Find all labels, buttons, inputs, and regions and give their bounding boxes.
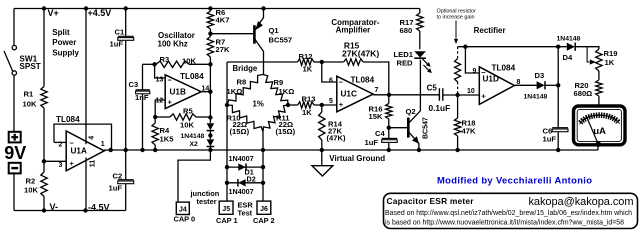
node D4 feedback junction <box>556 45 560 49</box>
svg-text:CAP 0: CAP 0 <box>174 215 196 224</box>
label Split Power Supply <box>52 28 79 57</box>
wire rectifier feedback <box>458 46 567 48</box>
svg-text:680Ω: 680Ω <box>574 89 593 98</box>
node top rail junction x44 <box>42 6 46 10</box>
resistor R9 <box>263 75 288 106</box>
svg-text:R19: R19 <box>604 49 618 58</box>
svg-text:1%: 1% <box>253 100 264 109</box>
svg-text:D4: D4 <box>563 53 573 62</box>
node U1A output junction <box>109 148 113 152</box>
op-amp U1D <box>479 67 514 105</box>
wire bridge bottom down <box>262 132 264 202</box>
svg-text:4: 4 <box>89 136 96 140</box>
wire rail corner to R17 <box>419 9 421 14</box>
node Q2 base junction <box>387 126 391 130</box>
annotation arrow optional resistor <box>454 21 458 45</box>
ground symbol virtual ground <box>312 150 333 176</box>
wire bottom V- rail <box>14 210 126 212</box>
svg-text:R5: R5 <box>183 107 193 116</box>
wire R3 line left <box>143 63 157 65</box>
node R4 R5 junction <box>153 115 157 119</box>
svg-text:R1: R1 <box>24 90 34 99</box>
svg-text:+4.5V: +4.5V <box>88 8 112 18</box>
svg-text:J5: J5 <box>222 206 230 213</box>
svg-text:−: − <box>70 139 75 148</box>
svg-text:Split: Split <box>52 28 70 37</box>
svg-text:R9: R9 <box>274 78 284 87</box>
svg-text:(15Ω): (15Ω) <box>230 127 250 136</box>
node C1 C2 rail junction <box>124 148 128 152</box>
svg-text:J6: J6 <box>260 206 268 213</box>
svg-text:9V: 9V <box>4 143 26 163</box>
diode D3 <box>537 81 559 89</box>
svg-text:47K: 47K <box>462 126 476 135</box>
svg-text:Test: Test <box>238 209 253 218</box>
svg-text:1uF: 1uF <box>365 138 379 147</box>
svg-text:TL084: TL084 <box>180 72 204 81</box>
wire D3 node vertical <box>557 47 559 86</box>
node bridge right <box>286 103 290 107</box>
svg-text:1K: 1K <box>605 58 615 67</box>
node D3 output junction <box>556 83 560 87</box>
diode D1 1N4007 <box>227 163 263 170</box>
svg-text:TL084: TL084 <box>351 76 375 85</box>
wire pin6 down <box>322 62 337 82</box>
svg-text:6: 6 <box>329 78 333 85</box>
node R3 output junction <box>208 62 212 66</box>
svg-text:(47K): (47K) <box>327 133 346 142</box>
node bottom rail junction x85.5 <box>83 208 87 212</box>
wire U1B pin12 <box>155 100 165 117</box>
svg-text:1uF: 1uF <box>109 184 123 193</box>
node C6 rail junction <box>556 148 560 152</box>
svg-text:1N4007: 1N4007 <box>229 154 254 163</box>
svg-text:+: + <box>481 92 486 101</box>
svg-text:+: + <box>168 98 173 107</box>
svg-text:C5: C5 <box>427 84 438 93</box>
svg-text:10K: 10K <box>182 57 196 66</box>
svg-text:Rectifier: Rectifier <box>474 26 506 35</box>
svg-text:tester: tester <box>197 197 217 206</box>
node diode rail junction <box>208 148 212 152</box>
resistor R17 <box>417 13 423 31</box>
resistor R6 <box>207 9 213 34</box>
resistor R5 <box>170 114 196 120</box>
svg-text:−: − <box>168 76 173 85</box>
optional resistor dashed <box>455 47 461 95</box>
svg-text:C1: C1 <box>115 28 125 37</box>
svg-text:1KΩ: 1KΩ <box>279 87 295 96</box>
wire U1B output <box>201 91 210 93</box>
svg-text:R2: R2 <box>26 176 36 185</box>
wire divider bottom <box>43 197 45 211</box>
svg-text:11: 11 <box>90 160 97 168</box>
node R18 rail junction <box>455 148 459 152</box>
wire R12 right <box>314 61 322 63</box>
resistor R1 <box>41 87 47 109</box>
meter microammeter <box>574 106 626 147</box>
node C3 rail junction <box>140 148 144 152</box>
wire switch to battery <box>13 75 15 132</box>
transistor Q1 BC557 <box>254 9 263 75</box>
node Q1 base junction <box>208 32 212 36</box>
capacitor C3 <box>136 64 150 150</box>
wire R5 right <box>196 116 210 118</box>
svg-text:Modified by Vecchiarelli Anton: Modified by Vecchiarelli Antonio <box>437 175 592 186</box>
svg-text:C4: C4 <box>375 129 385 138</box>
potentiometer R19 <box>587 47 602 71</box>
svg-text:1N4148: 1N4148 <box>181 133 205 140</box>
node pin6 junction <box>320 60 324 64</box>
wire R17 to LED <box>419 31 421 49</box>
resistor R12 <box>298 59 315 65</box>
svg-text:C3: C3 <box>129 80 139 89</box>
resistor R10 <box>227 105 263 132</box>
svg-text:TL084: TL084 <box>56 115 80 124</box>
wire R3 line right <box>189 63 210 65</box>
node top rail junction x210.4 <box>208 6 212 10</box>
svg-text:R12: R12 <box>299 52 313 61</box>
svg-text:0.1uF: 0.1uF <box>429 103 451 113</box>
wire oscillator output vertical <box>209 64 211 117</box>
svg-text:CAP 1: CAP 1 <box>216 216 238 225</box>
wire C2 bottom <box>125 184 127 211</box>
svg-text:D3: D3 <box>535 71 545 80</box>
node U1B output junction <box>208 90 212 94</box>
node R3 pin13 junction <box>152 62 156 66</box>
wire pin13 stub <box>155 64 166 78</box>
node R14 rail junction <box>320 148 324 152</box>
connector J4 <box>176 202 189 214</box>
svg-text:10K: 10K <box>24 185 38 194</box>
node D2 left <box>225 181 229 185</box>
svg-text:−: − <box>481 68 486 77</box>
node D1 left <box>225 165 229 169</box>
capacitor C6 <box>552 85 568 150</box>
svg-text:SPST: SPST <box>19 62 40 71</box>
svg-text:Bridge: Bridge <box>233 64 258 73</box>
info box <box>384 193 638 228</box>
wire midpoint to pin3 <box>44 160 66 162</box>
svg-text:C2: C2 <box>113 172 123 181</box>
svg-text:J4: J4 <box>179 206 187 213</box>
node C4 rail junction <box>387 148 391 152</box>
resistor R15 <box>344 59 364 65</box>
node bridge left <box>225 103 229 107</box>
svg-text:1K5: 1K5 <box>160 135 175 144</box>
wire R15 left <box>322 61 344 63</box>
resistor R14 <box>319 105 325 150</box>
svg-text:12: 12 <box>156 98 164 105</box>
wire top V+ rail <box>14 8 420 10</box>
op-amp U1A <box>66 131 104 171</box>
svg-text:13: 13 <box>156 76 164 83</box>
resistor R16 <box>386 95 392 128</box>
svg-text:Amplifier: Amplifier <box>336 26 371 35</box>
svg-text:−: − <box>339 77 344 86</box>
svg-text:Capacitor ESR meter: Capacitor ESR meter <box>387 196 475 206</box>
resistor R4 <box>152 117 158 150</box>
node D2 right <box>261 181 265 185</box>
svg-text:TL084: TL084 <box>492 64 516 73</box>
capacitor C5 <box>439 88 442 101</box>
svg-text:(15Ω): (15Ω) <box>276 127 296 136</box>
wire R5 left <box>155 116 170 118</box>
battery 9V negative terminal <box>9 163 21 174</box>
capacitor C4 <box>382 128 398 150</box>
wire diode mid <box>209 131 211 140</box>
wire divider middle <box>43 108 45 172</box>
transistor Q2 BC547 <box>408 60 420 150</box>
wire divider top <box>43 9 45 87</box>
svg-text:1nF: 1nF <box>135 93 149 102</box>
svg-text:100 Khz: 100 Khz <box>158 40 188 49</box>
wire bridge left node up <box>226 62 228 105</box>
diode D4 <box>567 43 599 51</box>
resistor R18 <box>454 95 460 150</box>
svg-text:4K7: 4K7 <box>216 16 230 25</box>
resistor R13 <box>298 102 314 108</box>
svg-text:1KΩ: 1KΩ <box>227 87 243 96</box>
svg-text:V+: V+ <box>48 8 59 18</box>
resistor R11 <box>263 105 288 132</box>
svg-text:1N4148: 1N4148 <box>557 36 581 43</box>
wire virtual ground rail <box>104 149 598 151</box>
svg-text:uA: uA <box>593 126 606 137</box>
svg-text:1K: 1K <box>302 108 312 117</box>
wire pin9 <box>465 47 479 73</box>
svg-text:Optional resistor: Optional resistor <box>437 9 476 15</box>
svg-text:Power: Power <box>52 38 76 47</box>
wire C5 to pin10 <box>443 94 480 96</box>
node diode pair midpoint <box>208 133 212 137</box>
svg-text:U1C: U1C <box>341 90 357 99</box>
node pin5 junction <box>320 103 324 107</box>
svg-text:7: 7 <box>375 87 379 94</box>
svg-text:D2: D2 <box>247 175 256 184</box>
node R5 diode junction <box>208 115 212 119</box>
svg-text:10: 10 <box>467 88 475 95</box>
node top rail junction x86 <box>84 6 88 10</box>
wire bridge left node down <box>226 105 228 201</box>
resistor R3 <box>156 61 189 67</box>
node R4 rail junction <box>153 148 157 152</box>
wire C2 top <box>125 150 127 180</box>
svg-text:BC547: BC547 <box>423 117 430 139</box>
node top rail junction x263.5 <box>261 6 265 10</box>
wire R12 line <box>227 61 298 63</box>
svg-text:R8: R8 <box>237 78 247 87</box>
svg-text:9: 9 <box>473 68 477 75</box>
wire R13 left <box>288 104 298 106</box>
diode D2 1N4007 <box>227 179 263 186</box>
svg-text:R13: R13 <box>302 95 316 104</box>
op-amp U1B <box>165 75 201 109</box>
wire U1D output <box>514 84 536 86</box>
node bottom rail junction x44 <box>42 208 46 212</box>
wire U1A pin2 <box>54 141 66 143</box>
svg-text:1uF: 1uF <box>110 40 124 49</box>
svg-text:Q2: Q2 <box>406 107 416 116</box>
svg-text:Q1: Q1 <box>269 26 280 35</box>
connector J6 <box>257 201 271 214</box>
wire opamp supply line pin11 <box>85 158 87 211</box>
svg-text:1uF: 1uF <box>543 135 557 144</box>
capacitor C2 <box>118 180 134 184</box>
switch SW1 SPST <box>4 45 17 75</box>
capacitor C1 <box>118 36 134 40</box>
diode D5 1N4148 top <box>207 118 215 131</box>
svg-text:5: 5 <box>329 98 333 105</box>
node bridge bottom rail junction <box>261 148 265 152</box>
node Q2 emitter rail junction <box>417 148 421 152</box>
wire battery to bottom rail <box>13 173 15 210</box>
svg-text:+: + <box>339 100 344 109</box>
svg-text:X2: X2 <box>190 141 199 148</box>
svg-text:3: 3 <box>59 162 63 169</box>
svg-text:is based on http://www.nuovael: is based on http://www.nuovaelettronica.… <box>385 219 624 226</box>
node top rail junction x125.7 <box>124 6 128 10</box>
resistor R7 <box>207 34 213 65</box>
wire Q2 base <box>389 127 407 129</box>
svg-text:10K: 10K <box>23 100 37 109</box>
svg-text:BC557: BC557 <box>269 36 293 45</box>
connector J5 <box>219 201 233 214</box>
battery 9V positive terminal <box>9 132 21 143</box>
svg-text:V-: V- <box>50 202 59 212</box>
node D1 right <box>261 165 265 169</box>
svg-text:RED: RED <box>397 59 414 68</box>
svg-text:R3: R3 <box>160 55 170 64</box>
resistor R20 <box>596 80 602 96</box>
svg-text:U1A: U1A <box>71 147 87 156</box>
wire Q1 base <box>210 33 253 35</box>
svg-text:10K: 10K <box>180 121 194 130</box>
wire battery to rail <box>13 9 15 46</box>
wire meter bottom <box>597 147 599 151</box>
wire R19 to R20 <box>598 71 600 80</box>
LED LED1 <box>414 51 432 73</box>
op-amp U1C <box>337 76 373 112</box>
wire C1 top <box>125 9 127 37</box>
svg-text:to increase gain: to increase gain <box>437 15 475 21</box>
wire J4 <box>178 150 210 202</box>
svg-text:1K: 1K <box>303 65 313 74</box>
svg-text:1N4007: 1N4007 <box>229 187 254 196</box>
svg-text:Supply: Supply <box>52 48 79 57</box>
svg-text:27K: 27K <box>216 45 230 54</box>
svg-text:680: 680 <box>400 26 413 35</box>
wire U1A feedback <box>54 124 112 150</box>
wire C1 bottom <box>125 40 127 150</box>
svg-text:-4.5V: -4.5V <box>88 202 110 212</box>
svg-text:U1B: U1B <box>170 88 186 97</box>
wire R13 right <box>314 104 337 106</box>
node divider midpoint <box>42 159 46 163</box>
node C5 R18 junction <box>455 93 459 97</box>
svg-text:27K(47K): 27K(47K) <box>342 49 379 59</box>
wire R15 right <box>363 62 389 95</box>
diode D6 1N4148 bottom <box>207 139 215 150</box>
resistor R8 <box>227 75 263 106</box>
svg-text:Based on http://www.qsl.net/iz: Based on http://www.qsl.net/iz7ath/web/0… <box>385 210 632 217</box>
svg-text:1N4148: 1N4148 <box>524 94 548 101</box>
svg-text:kakopa@kakopa.com: kakopa@kakopa.com <box>529 196 634 208</box>
svg-text:CAP 2: CAP 2 <box>253 216 275 225</box>
svg-text:Virtual Ground: Virtual Ground <box>329 154 385 163</box>
wire U1C output <box>373 94 439 96</box>
node pin9 feedback junction <box>463 45 467 49</box>
svg-text:1: 1 <box>101 141 105 148</box>
svg-text:+: + <box>70 159 75 168</box>
node U1C output junction <box>387 93 391 97</box>
svg-text:15K: 15K <box>369 112 383 121</box>
resistor R2 <box>41 172 47 197</box>
wire R20 to meter <box>598 96 600 105</box>
wire opamp supply line pin4 <box>85 9 87 145</box>
